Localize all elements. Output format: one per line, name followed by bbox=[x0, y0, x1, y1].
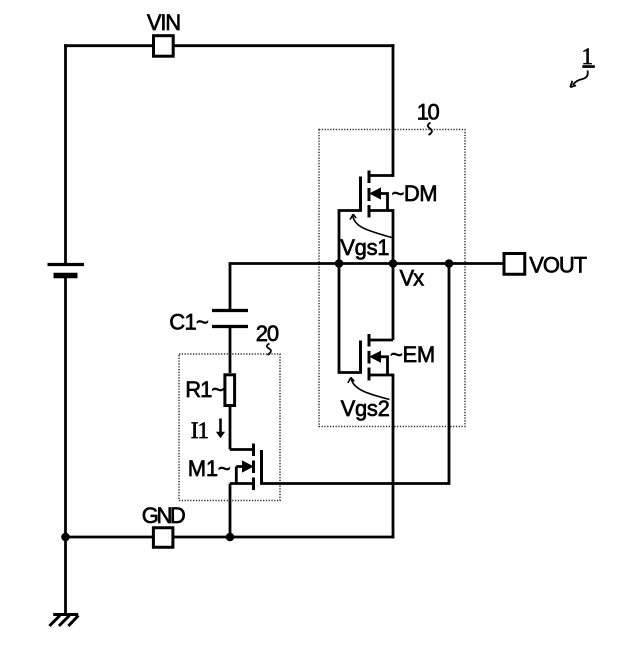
label I1 bbox=[191, 418, 209, 443]
svg-text:C1~: C1~ bbox=[169, 309, 208, 334]
resistor R1 bbox=[225, 375, 235, 406]
svg-text:GND: GND bbox=[142, 503, 185, 528]
wire M1 gate to node Vx (right branch) bbox=[262, 264, 450, 484]
wire right vertical from VIN rail to DM drain bbox=[392, 46, 395, 176]
label 1 (figure number) bbox=[582, 44, 595, 69]
wire left vertical upper (to battery +) bbox=[64, 46, 67, 263]
svg-text:Vx: Vx bbox=[400, 266, 425, 291]
terminal VIN box bbox=[154, 36, 174, 57]
wire node Vx horizontal rail bbox=[230, 262, 503, 265]
svg-text:Vgs2: Vgs2 bbox=[341, 396, 390, 421]
svg-text:M1~: M1~ bbox=[188, 456, 231, 481]
arrow I1 current bbox=[216, 419, 225, 439]
svg-text:Vgs1: Vgs1 bbox=[340, 235, 389, 260]
svg-text:10: 10 bbox=[417, 100, 440, 125]
wire EM source to GND rail bbox=[392, 375, 395, 537]
wire R1 to M1 drain bbox=[229, 407, 232, 450]
node dot Vx-EM junction bbox=[389, 259, 398, 268]
leader squiggle for 20 bbox=[267, 344, 271, 356]
wire M1 source to GND rail bbox=[229, 484, 232, 538]
svg-text:20: 20 bbox=[256, 321, 279, 346]
leader squiggle for 10 bbox=[428, 123, 432, 136]
leader arrow for 1 bbox=[570, 71, 587, 88]
arrow Vgs1 bbox=[350, 214, 392, 237]
wire bottom horizontal GND rail bbox=[66, 536, 394, 539]
node dot GND-M1 junction bbox=[226, 533, 235, 542]
svg-text:VOUT: VOUT bbox=[529, 252, 586, 277]
wire top horizontal VIN rail bbox=[66, 44, 394, 47]
transistor DM bbox=[361, 171, 394, 218]
node dot Vx-M1gate junction bbox=[445, 259, 454, 268]
node dot Vx-gate junction bbox=[335, 259, 344, 268]
svg-text:I1: I1 bbox=[191, 418, 209, 443]
terminal GND box bbox=[153, 528, 173, 548]
transistor M1 bbox=[230, 444, 262, 491]
wire node Vx to EM drain bbox=[392, 264, 395, 341]
ground bbox=[49, 615, 78, 627]
svg-text:~DM: ~DM bbox=[392, 181, 438, 206]
wire DM source to node Vx bbox=[392, 211, 395, 264]
node dot GND-left junction bbox=[61, 533, 70, 542]
wire DM gate lead to node Vx bbox=[339, 211, 361, 264]
capacitor C1 bbox=[212, 264, 248, 374]
arrow Vgs2 bbox=[348, 377, 390, 399]
svg-text:R1~: R1~ bbox=[185, 377, 223, 402]
wire left vertical lower (battery - to ground) bbox=[64, 276, 67, 615]
dashed box 10 bbox=[319, 130, 465, 427]
transistor EM bbox=[361, 334, 394, 381]
svg-text:VIN: VIN bbox=[147, 10, 180, 35]
svg-text:~EM: ~EM bbox=[390, 342, 435, 367]
dashed box 20 bbox=[179, 354, 280, 501]
terminal VOUT box bbox=[504, 254, 525, 275]
battery B1 bbox=[48, 265, 85, 276]
wire EM gate lead to node Vx bbox=[339, 264, 361, 373]
